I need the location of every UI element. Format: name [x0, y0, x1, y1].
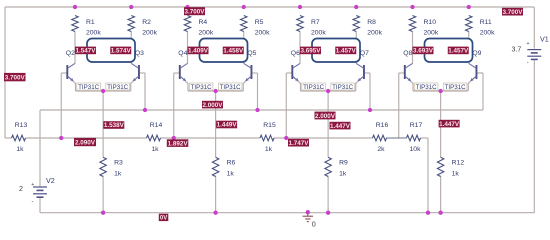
transistor Q5 — [244, 63, 252, 81]
wire base lead right Q3 — [139, 72, 145, 74]
svg-text:1k: 1k — [16, 146, 24, 153]
label TIP31C left pair 3 — [302, 83, 326, 91]
resistor R10 200k — [409, 16, 439, 37]
svg-text:2: 2 — [19, 186, 23, 193]
junction dots top rail — [73, 5, 77, 9]
wire ladder rail segments — [5, 137, 12, 139]
resistor R5 200k — [241, 16, 271, 37]
wire base lead right Q7 — [364, 72, 370, 74]
svg-text:10k: 10k — [410, 146, 422, 153]
resistor R16 2k — [373, 122, 389, 153]
svg-text:R3: R3 — [114, 160, 123, 167]
svg-text:1.574V: 1.574V — [111, 48, 132, 55]
resistor R9 1k — [325, 157, 348, 177]
annotation box pair 1 — [87, 39, 135, 63]
probe label 2.090V ladder node 1 — [74, 138, 96, 147]
svg-text:3.700V: 3.700V — [185, 9, 206, 16]
resistor R13 1k — [12, 122, 28, 153]
wire base lead left Q2 — [61, 72, 67, 74]
svg-text:2.090V: 2.090V — [75, 140, 96, 147]
svg-text:200k: 200k — [142, 30, 157, 37]
svg-text:1.747V: 1.747V — [289, 140, 310, 147]
svg-text:-: - — [527, 61, 529, 67]
svg-text:R11: R11 — [480, 19, 492, 26]
wire base lead right Q9 — [476, 72, 482, 74]
svg-text:2.000V: 2.000V — [315, 113, 336, 120]
probe label 1.447V emitter pair 3 — [330, 122, 351, 130]
svg-text:TIP31C: TIP31C — [332, 84, 354, 91]
wire emitter bus pair 4 — [413, 90, 468, 92]
junction dots emitter buses — [101, 89, 105, 93]
svg-text:Q5: Q5 — [247, 50, 256, 57]
wire emitter bus pair 1 — [76, 90, 131, 92]
battery V2 2V — [19, 176, 55, 205]
svg-text:1.447V: 1.447V — [439, 121, 460, 128]
wire emitter column to R9 — [327, 91, 329, 157]
wire collector leads pair 4 — [412, 32, 414, 64]
junction dots base rail y=110 — [143, 108, 147, 112]
probe label 1.457V (collector Q9) — [448, 47, 469, 55]
wire bottom ground rail — [40, 212, 534, 214]
probe label 1.747V ladder node 3 — [288, 139, 309, 147]
label TIP31C right pair 1 — [106, 83, 130, 91]
svg-text:3.695V: 3.695V — [301, 48, 322, 55]
wire top 3.7V rail — [5, 6, 534, 8]
resistor R2 200k — [128, 16, 158, 37]
svg-text:1.458V: 1.458V — [223, 48, 244, 55]
label TIP31C left pair 2 — [189, 83, 213, 91]
resistor R15 1k — [260, 122, 276, 153]
probe label 1.892V ladder node 2 — [167, 139, 189, 147]
resistor R1 200k — [72, 16, 102, 37]
junction dots bottom rail — [101, 211, 105, 215]
probe label 2.000V base rail b — [315, 112, 336, 120]
probe label 3.700V near V1 — [502, 8, 523, 16]
svg-text:TIP31C: TIP31C — [303, 84, 325, 91]
probe label 1.458V (collector Q5) — [223, 47, 244, 55]
wire V2 column — [39, 110, 41, 187]
resistor R4 200k — [184, 16, 214, 37]
resistor R11 200k — [466, 16, 496, 37]
wire emitter column to R12 — [440, 91, 442, 157]
svg-text:200k: 200k — [424, 30, 439, 37]
svg-text:R1: R1 — [86, 19, 95, 26]
svg-text:1k: 1k — [151, 146, 159, 153]
svg-text:TIP31C: TIP31C — [220, 84, 242, 91]
svg-text:200k: 200k — [480, 30, 495, 37]
probe label 3.700V top rail — [184, 7, 205, 15]
annotation box pair 2 — [200, 39, 248, 63]
wire emitter column to R3 — [102, 91, 104, 157]
svg-text:1.449V: 1.449V — [217, 122, 238, 129]
svg-text:R4: R4 — [199, 19, 208, 26]
svg-text:0: 0 — [312, 220, 316, 229]
svg-text:200k: 200k — [86, 30, 101, 37]
label TIP31C right pair 2 — [218, 83, 242, 91]
probe label 0V ground rail — [159, 214, 169, 222]
svg-text:R15: R15 — [263, 122, 276, 129]
svg-text:1.447V: 1.447V — [330, 123, 351, 130]
svg-text:2.000V: 2.000V — [203, 102, 224, 109]
svg-text:R13: R13 — [15, 122, 28, 129]
svg-text:200k: 200k — [255, 30, 270, 37]
svg-text:200k: 200k — [367, 30, 382, 37]
svg-text:2k: 2k — [377, 146, 385, 153]
wire collector leads pair 1 — [74, 32, 76, 64]
svg-text:TIP31C: TIP31C — [191, 84, 213, 91]
svg-text:1k: 1k — [339, 171, 347, 178]
wire collector leads pair 3 — [299, 32, 301, 64]
probe label 1.409V (collector Q4) — [188, 47, 209, 55]
svg-text:R16: R16 — [376, 122, 389, 129]
svg-text:V1: V1 — [540, 35, 549, 44]
svg-text:TIP31C: TIP31C — [78, 84, 100, 91]
svg-text:Q4: Q4 — [178, 50, 187, 57]
svg-text:1k: 1k — [227, 171, 235, 178]
transistor Q4 — [180, 63, 188, 81]
svg-text:TIP31C: TIP31C — [445, 84, 467, 91]
svg-text:200k: 200k — [199, 30, 214, 37]
svg-text:Q6: Q6 — [291, 50, 300, 57]
probe label 1.574V (collector Q3) — [110, 47, 131, 55]
svg-text:3.693V: 3.693V — [413, 48, 434, 55]
svg-text:1.892V: 1.892V — [168, 140, 189, 147]
svg-text:0V: 0V — [160, 216, 167, 222]
ground 0 — [303, 213, 316, 229]
svg-text:1.457V: 1.457V — [448, 48, 469, 55]
probe label 1.547V (collector Q2) — [75, 47, 96, 55]
probe label 3.700V left border — [4, 73, 26, 82]
svg-text:R17: R17 — [410, 122, 423, 129]
probe label 2.000V base rail a — [202, 101, 223, 109]
wire V2 base rail y=110 — [40, 109, 483, 111]
resistor R17 10k — [407, 122, 423, 153]
svg-text:1k: 1k — [114, 171, 122, 178]
annotation box pair 3 — [312, 39, 360, 63]
battery V1 3.7V — [512, 35, 549, 67]
label TIP31C right pair 4 — [443, 83, 467, 91]
svg-text:1.457V: 1.457V — [336, 48, 357, 55]
transistor Q6 — [292, 63, 300, 81]
svg-text:R2: R2 — [142, 19, 151, 26]
svg-text:V2: V2 — [46, 176, 55, 185]
probe label 1.457V (collector Q7) — [335, 47, 356, 55]
svg-text:R5: R5 — [255, 19, 264, 26]
svg-text:TIP31C: TIP31C — [416, 84, 438, 91]
resistor R3 1k — [100, 157, 123, 177]
transistor Q8 — [405, 63, 413, 81]
svg-text:1.547V: 1.547V — [76, 48, 97, 55]
wire emitter column to R6 — [215, 91, 217, 157]
transistor Q9 — [469, 63, 477, 81]
svg-text:1.409V: 1.409V — [188, 48, 209, 55]
svg-text:R8: R8 — [367, 19, 376, 26]
svg-text:1.538V: 1.538V — [104, 122, 125, 129]
label TIP31C left pair 1 — [77, 83, 101, 91]
junction dots ladder rail y=138 — [59, 136, 63, 140]
svg-text:3.700V: 3.700V — [503, 9, 524, 16]
label TIP31C left pair 4 — [414, 83, 438, 91]
resistor R6 1k — [212, 157, 235, 177]
svg-text:3.7: 3.7 — [512, 46, 522, 53]
probe label 1.449V emitter pair 2 — [216, 121, 237, 129]
probe label 1.447V emitter pair 4 — [439, 120, 460, 128]
svg-text:Q2: Q2 — [66, 50, 75, 57]
svg-text:+: + — [31, 182, 34, 188]
wire base lead left Q6 — [286, 72, 292, 74]
resistor R7 200k — [297, 16, 327, 37]
svg-text:+: + — [527, 41, 530, 47]
svg-text:R14: R14 — [150, 122, 163, 129]
transistor Q2 — [67, 63, 75, 81]
wire V1 column — [533, 7, 535, 49]
resistor R12 1k — [437, 157, 464, 177]
wire collector leads pair 2 — [187, 32, 189, 64]
svg-text:Q8: Q8 — [403, 50, 412, 57]
svg-text:TIP31C: TIP31C — [107, 84, 129, 91]
probe label 3.695V (collector Q6) — [300, 47, 321, 55]
wire emitter bus pair 3 — [301, 90, 356, 92]
svg-text:3.700V: 3.700V — [5, 75, 26, 82]
svg-text:Q3: Q3 — [135, 50, 144, 57]
svg-text:R12: R12 — [452, 160, 465, 167]
probe label 1.538V emitter pair 1 — [103, 121, 124, 129]
probe label 3.693V (collector Q8) — [413, 47, 434, 55]
svg-text:200k: 200k — [311, 30, 326, 37]
annotation box pair 4 — [425, 39, 473, 63]
resistor R8 200k — [353, 16, 383, 37]
svg-text:-: - — [32, 199, 34, 205]
wire emitter bus pair 2 — [188, 90, 243, 92]
svg-text:Q7: Q7 — [360, 50, 369, 57]
svg-text:R6: R6 — [227, 160, 236, 167]
wire base lead right Q5 — [251, 72, 257, 74]
svg-text:1k: 1k — [265, 146, 273, 153]
resistor R14 1k — [147, 122, 163, 153]
wire base lead left Q8 — [399, 72, 405, 74]
svg-text:Q9: Q9 — [472, 50, 481, 57]
svg-text:R7: R7 — [311, 19, 320, 26]
wire base lead left Q4 — [174, 72, 180, 74]
svg-text:R9: R9 — [339, 160, 348, 167]
svg-text:R10: R10 — [424, 19, 437, 26]
svg-text:1k: 1k — [452, 171, 460, 178]
label TIP31C right pair 3 — [331, 83, 355, 91]
transistor Q3 — [131, 63, 139, 81]
wire left border from top rail to R13 — [4, 7, 6, 138]
transistor Q7 — [356, 63, 364, 81]
wire R17 to ground rail — [421, 137, 429, 139]
